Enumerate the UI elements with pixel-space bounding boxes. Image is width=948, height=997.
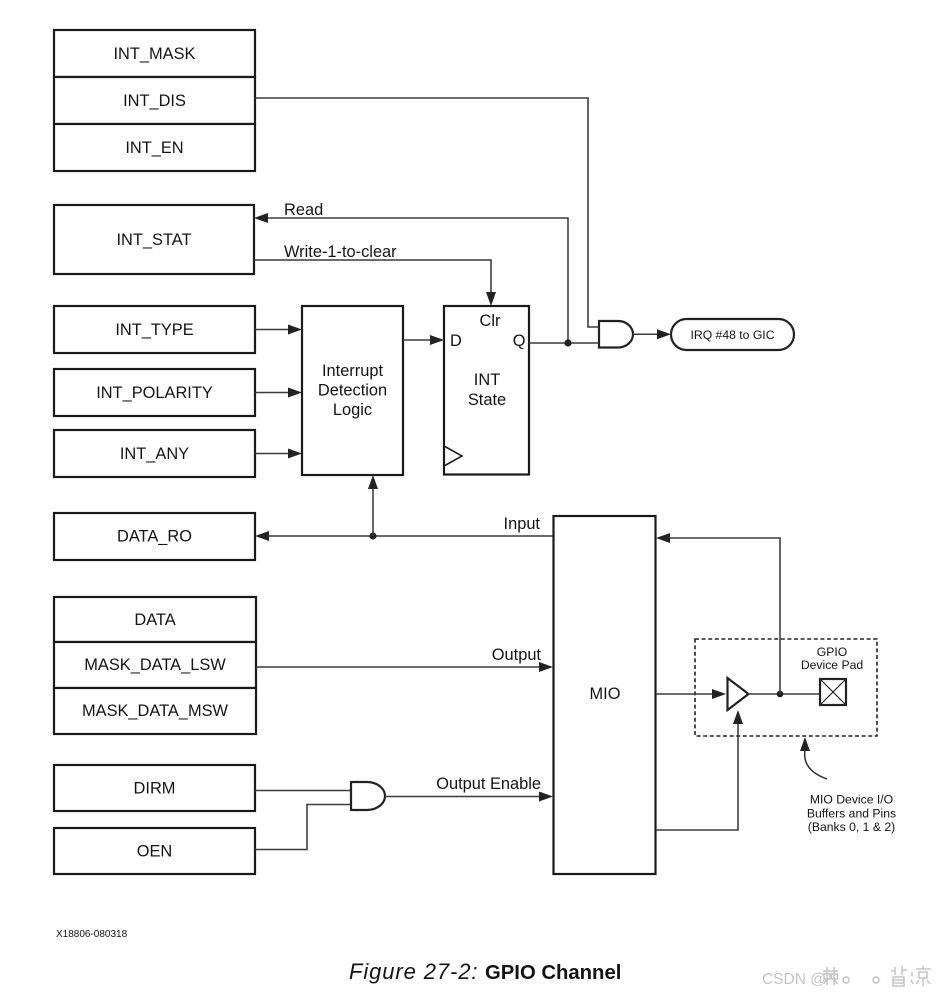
svg-text:INT_EN: INT_EN xyxy=(125,139,183,157)
svg-text:Detection: Detection xyxy=(318,382,387,400)
svg-text:GPIO Channel: GPIO Channel xyxy=(485,962,621,984)
watermark glyph ji xyxy=(823,967,838,985)
svg-text:MIO Device I/O: MIO Device I/O xyxy=(810,793,893,807)
watermark glyph liang xyxy=(911,966,931,986)
svg-text:Device Pad: Device Pad xyxy=(801,658,863,672)
svg-text:Clr: Clr xyxy=(480,312,501,330)
svg-text:INT: INT xyxy=(474,371,500,389)
wire INT_ANY to detection logic xyxy=(255,449,302,459)
flip-flop INT State xyxy=(444,306,529,475)
caption Figure 27-2: GPIO Channel xyxy=(349,959,621,984)
wire OEN to AND gate U2 xyxy=(255,805,351,850)
watermark glyph period 1 xyxy=(843,977,849,983)
svg-text:Read: Read xyxy=(284,201,323,219)
register INT_EN xyxy=(54,124,255,171)
wire Output (MASK_DATA_LSW to MIO) xyxy=(256,662,553,672)
watermark glyph period 2 xyxy=(873,977,879,983)
wire Output Enable (U2 to MIO) xyxy=(385,792,553,802)
register INT_STAT xyxy=(54,205,254,274)
register INT_TYPE xyxy=(54,306,255,353)
AND gate U1 xyxy=(599,321,633,348)
svg-text:MASK_DATA_MSW: MASK_DATA_MSW xyxy=(82,702,229,720)
wire buffer to pad xyxy=(749,693,821,695)
wire Write-1-to-clear (INT_STAT to Clr input) xyxy=(254,260,496,306)
svg-text:INT_MASK: INT_MASK xyxy=(114,45,196,63)
wire INT_TYPE to detection logic xyxy=(255,325,302,335)
junction dot node Q xyxy=(564,339,571,346)
svg-text:GPIO: GPIO xyxy=(817,645,847,659)
junction dot Input node xyxy=(369,532,376,539)
leader arrow to dashed box xyxy=(800,737,827,779)
register INT_ANY xyxy=(54,430,255,477)
svg-text:IRQ #48 to GIC: IRQ #48 to GIC xyxy=(691,328,775,342)
svg-text:Interrupt: Interrupt xyxy=(322,362,383,380)
svg-text:INT_STAT: INT_STAT xyxy=(117,231,192,249)
svg-text:MIO: MIO xyxy=(590,685,621,703)
register OEN xyxy=(54,828,255,874)
svg-text:Write-1-to-clear: Write-1-to-clear xyxy=(284,243,397,261)
svg-text:INT_DIS: INT_DIS xyxy=(123,92,186,110)
wire Read (Q node to INT_STAT) xyxy=(254,213,568,342)
svg-text:Output: Output xyxy=(492,646,542,664)
svg-text:INT_ANY: INT_ANY xyxy=(120,445,189,463)
label GPIO Device Pad xyxy=(801,645,863,672)
svg-text:D: D xyxy=(450,332,462,350)
watermark CSDN xyxy=(762,971,826,988)
svg-text:Input: Input xyxy=(504,515,541,533)
buffer output driver xyxy=(728,678,749,710)
dashed box MIO device IO buffers and pins xyxy=(695,639,877,736)
svg-text:Logic: Logic xyxy=(333,401,372,419)
register DIRM xyxy=(54,765,255,811)
svg-text:MASK_DATA_LSW: MASK_DATA_LSW xyxy=(84,656,226,674)
register INT_DIS xyxy=(54,77,255,124)
wire pad node feedback to MIO input xyxy=(656,533,780,694)
svg-text:Figure 27-2:: Figure 27-2: xyxy=(349,959,478,984)
register MASK_DATA_MSW xyxy=(54,688,256,734)
svg-text:Buffers and Pins: Buffers and Pins xyxy=(807,807,896,821)
wire Input node to detection logic xyxy=(368,475,378,536)
svg-text:Q: Q xyxy=(513,332,526,350)
wire MIO output to buffer xyxy=(656,689,726,699)
svg-text:INT_POLARITY: INT_POLARITY xyxy=(96,384,213,402)
svg-text:INT_TYPE: INT_TYPE xyxy=(115,321,193,339)
register DATA xyxy=(54,597,256,642)
svg-text:DIRM: DIRM xyxy=(134,780,176,798)
block Interrupt Detection Logic xyxy=(302,306,403,475)
wire Input (MIO to DATA_RO) xyxy=(255,531,553,541)
wire DIRM to AND gate U2 xyxy=(255,790,351,792)
svg-text:OEN: OEN xyxy=(137,843,173,861)
wire U1 output to IRQ terminal xyxy=(633,329,671,339)
clock pin triangle xyxy=(444,446,462,466)
svg-text:State: State xyxy=(468,391,506,409)
register DATA_RO xyxy=(54,513,255,560)
svg-text:CSDN @: CSDN @ xyxy=(762,971,826,988)
svg-text:DATA: DATA xyxy=(134,611,175,629)
svg-text:(Banks 0, 1 & 2): (Banks 0, 1 & 2) xyxy=(808,820,895,834)
wire buffer enable (MIO to buffer) xyxy=(656,710,743,830)
block MIO xyxy=(554,516,656,874)
svg-text:X18806-080318: X18806-080318 xyxy=(56,929,128,940)
label MIO Device IO Buffers and Pins xyxy=(807,793,896,835)
register MASK_DATA_LSW xyxy=(54,642,256,688)
wire INT_DIS to AND gate U1 upper input xyxy=(255,98,599,327)
terminal IRQ #48 to GIC xyxy=(671,319,794,350)
wire detection logic to D input xyxy=(403,335,444,345)
pad symbol GPIO Device Pad xyxy=(820,679,846,705)
wire Q output to AND gate U1 xyxy=(529,342,599,344)
svg-text:DATA_RO: DATA_RO xyxy=(117,528,192,546)
value label INT State xyxy=(468,371,506,409)
register INT_POLARITY xyxy=(54,369,255,416)
svg-text:Output Enable: Output Enable xyxy=(436,775,541,793)
register INT_MASK xyxy=(54,30,255,77)
wire INT_POLARITY to detection logic xyxy=(255,388,302,398)
AND gate U2 xyxy=(351,782,385,810)
watermark glyph bei xyxy=(891,966,907,986)
junction dot pad node xyxy=(777,691,784,698)
